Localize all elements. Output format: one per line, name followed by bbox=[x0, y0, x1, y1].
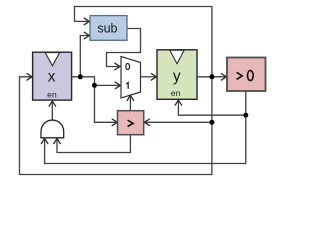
svg-text:sub: sub bbox=[97, 22, 117, 36]
svg-text:y: y bbox=[173, 68, 181, 85]
svg-text:en: en bbox=[171, 88, 181, 98]
svg-text:en: en bbox=[47, 89, 57, 99]
svg-text:x: x bbox=[48, 68, 56, 85]
